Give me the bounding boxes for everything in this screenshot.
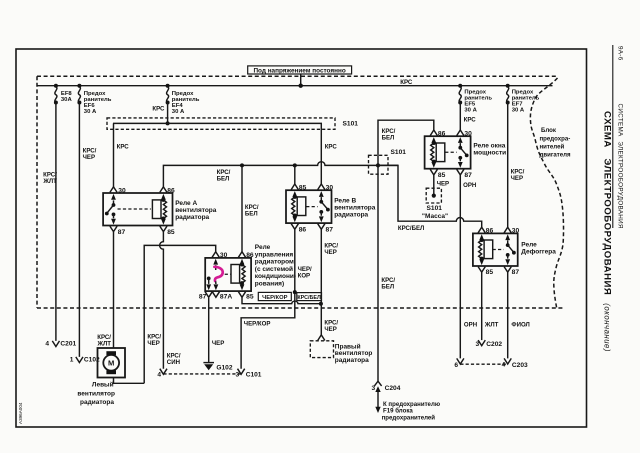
svg-text:ПредохранительEF630 А: ПредохранительEF630 А (84, 91, 112, 115)
control relay pin 86 (238, 252, 254, 265)
wire ЖЛТ: defogger pin 85 to C202 pin 3 (478, 272, 499, 345)
svg-text:КРС: КРС (117, 144, 130, 151)
relay A pin 87 (110, 219, 126, 236)
svg-text:87: 87 (118, 229, 126, 236)
relay A pin 30 (110, 187, 126, 200)
radiator control relay box (Реле управления радиатором) (205, 258, 251, 291)
svg-text:S101: S101 (427, 205, 443, 212)
control relay pin 30 (212, 252, 228, 265)
svg-text:ЧЕР/КОР: ЧЕР/КОР (244, 321, 271, 328)
defogger relay pin 30 (504, 227, 519, 240)
wire КРС/ЧЕР: relay B pin 87 down to right fan (318, 229, 339, 340)
svg-text:Реле окнамощности: Реле окнамощности (473, 143, 506, 157)
connector C201 pin 4 (45, 340, 76, 347)
svg-text:КРС/ЧЕР: КРС/ЧЕР (83, 148, 97, 162)
svg-text:КРС/БЕЛ: КРС/БЕЛ (398, 225, 424, 232)
wire КРС/ЧЕР: radiator control relay pin 30 to left fan negative (144, 245, 216, 383)
svg-text:86: 86 (299, 226, 307, 233)
svg-text:85: 85 (299, 185, 307, 192)
svg-text:ЧЕР/КОР: ЧЕР/КОР (298, 266, 312, 280)
wire КРС: splice to relay B pin 30 (321, 123, 337, 184)
svg-text:КРС: КРС (325, 144, 338, 151)
svg-text:СХЕМАЭЛЕКТРООБОРУДОВАНИЯ(оконч: СХЕМАЭЛЕКТРООБОРУДОВАНИЯ(окончание) (602, 111, 613, 352)
defogger relay box (Реле Дефоггера) (473, 233, 518, 266)
relay A coil (152, 198, 166, 221)
svg-text:КРС: КРС (464, 117, 477, 124)
svg-text:КРС/СИН: КРС/СИН (167, 353, 181, 367)
svg-text:ЧЕР: ЧЕР (212, 340, 224, 347)
svg-text:КРС/ЧЕР: КРС/ЧЕР (324, 242, 338, 256)
junction: rail to control relay 86 (240, 163, 244, 167)
wire КРС/ЖЛТ: fuse EF8 to C201 (52, 103, 59, 347)
svg-text:85: 85 (246, 294, 254, 301)
svg-text:30: 30 (512, 228, 520, 235)
relay A box (Реле А вентилятора радиатора) (103, 193, 172, 226)
svg-text:87: 87 (464, 172, 472, 179)
window relay pin 85 (430, 162, 445, 179)
fuse EF8 30A (54, 84, 73, 105)
wire label box КРС/БЕЛ (297, 293, 322, 301)
connector C101 pin 3 (236, 372, 262, 379)
connector C101 dashed line (157, 372, 241, 379)
svg-text:Блокпредохра-нителейдвигателя: Блокпредохра-нителейдвигателя (540, 127, 572, 159)
svg-text:"Масса": "Масса" (422, 213, 448, 220)
wire КРС/СИН: relay A pin 85 to C101 pin 4 (hops over crossing wire) (160, 232, 181, 374)
svg-text:87: 87 (512, 269, 520, 276)
junction: S101 crossing (376, 163, 380, 167)
relay A switch (105, 200, 151, 218)
svg-text:C202: C202 (486, 341, 502, 348)
wire: motor negative to КРС/ЧЕР riser (114, 378, 145, 384)
relay B pin 85 (291, 184, 306, 197)
wire КРС: fuse EF5 to power window relay pin 30 (460, 103, 476, 131)
svg-text:КРС/ЖЛТ: КРС/ЖЛТ (96, 334, 111, 348)
defogger relay pin 87 (504, 259, 519, 276)
junction: ЧЕР/КОР net on relay B87 wire (319, 302, 323, 306)
svg-text:87: 87 (326, 226, 334, 233)
svg-text:86: 86 (438, 131, 446, 138)
svg-text:86: 86 (167, 187, 175, 194)
svg-text:C101: C101 (246, 372, 262, 379)
relay A pin 85 (160, 219, 175, 236)
window relay switch (445, 143, 468, 161)
ground G102 (203, 363, 232, 372)
connector C203 dashed line (454, 361, 528, 369)
svg-text:КРС/БЕЛ: КРС/БЕЛ (382, 128, 396, 142)
svg-text:C203: C203 (512, 362, 528, 369)
power window relay box (Реле окна мощности) (425, 136, 471, 169)
svg-text:4: 4 (502, 361, 506, 368)
svg-text:86: 86 (246, 252, 254, 259)
svg-text:S101: S101 (343, 121, 359, 128)
svg-text:30: 30 (118, 187, 126, 194)
svg-text:КРС/БЕЛ: КРС/БЕЛ (297, 295, 321, 301)
window relay pin 86 (430, 130, 445, 143)
svg-text:3: 3 (476, 341, 480, 348)
svg-text:85: 85 (486, 269, 494, 276)
connector C202 pin 3 (476, 341, 503, 348)
svg-text:М: М (108, 359, 114, 368)
svg-text:87А: 87А (220, 294, 232, 301)
wire ЧЕР/КОР: control relay pin 85 to junction (hops over relay B86 wire) (242, 298, 321, 304)
svg-text:КРС/БЕЛ: КРС/БЕЛ (217, 169, 231, 183)
svg-text:Под напряжением постоянно: Под напряжением постоянно (253, 68, 345, 75)
connector C102 pin 1 (70, 356, 100, 363)
control relay pin 87 (199, 284, 212, 300)
svg-text:ОРН: ОРН (464, 321, 477, 328)
svg-text:КРС: КРС (152, 105, 165, 112)
svg-text:4: 4 (45, 340, 49, 347)
defogger relay coil (479, 238, 493, 261)
svg-text:4: 4 (157, 372, 161, 379)
svg-text:6: 6 (454, 362, 458, 369)
wire КРС/БЕЛ rail (hops over relay B pin 30 wire) (163, 162, 398, 187)
wire КРС/БЕЛ: rail to control relay pin 86 (242, 165, 259, 251)
svg-text:Реле Авентиляторарадиатора: Реле Авентиляторарадиатора (175, 200, 217, 221)
right fan dashed box (Правый вентилятор радиатора) (310, 341, 372, 364)
control relay coil (231, 263, 245, 286)
wire ЧЕР/КОР: relay B pin 86 down, to C101 pin 3 (238, 229, 313, 374)
connector C204 pin 3 (372, 381, 401, 413)
svg-text:1: 1 (70, 356, 74, 363)
svg-text:ФИОЛ: ФИОЛ (511, 321, 529, 328)
wire ФИОЛ: defogger pin 87 to C203 pin 4 (504, 272, 530, 364)
svg-text:3: 3 (372, 385, 376, 392)
svg-text:ЧЕР: ЧЕР (437, 180, 449, 187)
svg-text:РелеДефоггера: РелеДефоггера (521, 241, 556, 255)
control relay pin 85 (238, 284, 253, 300)
svg-text:Левыйвентиляторрадиатора: Левыйвентиляторрадиатора (77, 380, 115, 406)
svg-text:9А-6СИСТЕМАЭЛЕКТРООБОРУДОВАНИЯ: 9А-6СИСТЕМАЭЛЕКТРООБОРУДОВАНИЯ (616, 46, 623, 229)
wire: КРС power bus (37, 85, 553, 87)
svg-text:КРС/ЖЛТ: КРС/ЖЛТ (42, 172, 57, 186)
relay B box (Реле В вентилятора радиатора) (286, 190, 332, 223)
wire КРС/ЧЕР: fuse EF7 to defogger relay pin 30 (508, 103, 525, 228)
svg-text:G102: G102 (216, 365, 232, 372)
svg-text:КРС/БЕЛ: КРС/БЕЛ (245, 204, 259, 218)
window relay pin 87 (457, 162, 472, 179)
relay B pin 30 (318, 184, 334, 197)
svg-text:85: 85 (167, 229, 175, 236)
defogger relay pin 86 (478, 227, 493, 240)
defogger relay switch (493, 240, 516, 258)
fuse EF4 30A (166, 84, 200, 115)
relay B coil (292, 195, 306, 218)
svg-text:86: 86 (486, 228, 494, 235)
svg-text:Правыйвентиляторрадиатора: Правыйвентиляторрадиатора (335, 342, 373, 364)
wire КРС/ЧЕР: fuse EF6 to C102 (76, 103, 83, 363)
border frame (16, 49, 587, 427)
defogger relay pin 85 (478, 259, 493, 276)
page header rule (right margin) (612, 45, 614, 228)
fuse EF7 30A (506, 84, 540, 114)
svg-text:ЧЕР/КОР: ЧЕР/КОР (262, 295, 287, 301)
svg-text:30: 30 (326, 185, 334, 192)
wire КРС/БЕЛ: S101 up to power window relay pin 86 (378, 120, 434, 165)
svg-text:30: 30 (220, 252, 228, 259)
wire КРС: fuse EF4 down to splice S101 (166, 103, 170, 126)
svg-text:К предохранителюF19 блокапред: К предохранителюF19 блокапредохранителей (382, 401, 440, 422)
svg-text:85: 85 (438, 172, 446, 179)
svg-text:C201: C201 (60, 340, 76, 347)
splice S101 crossing box (369, 149, 407, 174)
svg-text:КРС/БЕЛ: КРС/БЕЛ (381, 277, 395, 291)
window relay pin 30 (457, 130, 472, 143)
svg-text:3: 3 (236, 372, 240, 379)
motor M (левый вентилятор радиатора) (98, 348, 126, 378)
relay B pin 87 (318, 216, 334, 233)
relay A pin 86 (160, 187, 175, 200)
engine fuse block dashed boundary (37, 76, 564, 309)
wire: banner dropper (299, 74, 303, 88)
svg-text:ПредохранительEF530 А: ПредохранительEF530 А (464, 90, 492, 114)
svg-text:ОРН: ОРН (463, 182, 476, 189)
splice S101 bus (dashed) (107, 118, 358, 129)
control relay pin 87A (212, 284, 232, 300)
wire КРС/БЕЛ: S101 down to C204 (378, 165, 395, 381)
label box "Под напряжением постоянно" (248, 66, 352, 75)
svg-text:S101: S101 (391, 149, 407, 156)
svg-text:ПредохранительEF430 А: ПредохранительEF430 А (172, 91, 200, 115)
fuse EF6 30A (77, 84, 111, 115)
svg-text:87: 87 (199, 294, 207, 301)
window relay coil (431, 141, 445, 164)
wire КРС: splice to relay A pin 30 (114, 123, 130, 187)
splice S101 Масса (dashed box) (422, 188, 448, 220)
svg-text:C204: C204 (385, 385, 401, 392)
svg-text:А396А004: А396А004 (18, 402, 23, 424)
svg-text:Реле Ввентиляторарадиатора: Реле Ввентиляторарадиатора (334, 198, 376, 219)
svg-text:30: 30 (464, 131, 472, 138)
wire КРС/ЖЛТ: relay A pin 87 to left fan motor (96, 232, 113, 348)
svg-text:ПредохранительEF730 А: ПредохранительEF730 А (512, 90, 540, 114)
wire label box ЧЕР/КОР (258, 292, 291, 301)
svg-text:КРС: КРС (400, 79, 413, 86)
svg-text:Релеуправлениярадиатором(с сис: Релеуправлениярадиатором(с системойконди… (255, 244, 296, 288)
svg-text:КРС/ЧЕР: КРС/ЧЕР (511, 168, 525, 182)
svg-text:ЖЛТ: ЖЛТ (484, 321, 499, 328)
junction: rail to relay B 85 (293, 163, 297, 167)
relay B pin 86 (291, 216, 306, 233)
wire ОРН: window relay pin 87 down to C203 pin 6 (457, 175, 477, 364)
relay B switch (306, 197, 330, 216)
wire: rail to relay B pin 85 (294, 165, 296, 184)
svg-text:КРС/ЧЕР: КРС/ЧЕР (324, 319, 338, 333)
wire КРС/БЕЛ: S101 to defogger relay pin 86 (hops over ОРН wire) (378, 165, 482, 231)
svg-text:КРС/ЧЕР: КРС/ЧЕР (147, 334, 161, 348)
control relay switch (highlighted) (207, 265, 231, 284)
wire ЧЕР: window relay pin 85 to S101 Масса (434, 175, 449, 194)
wire ЧЕР: control relay pin 87 to ground G102 (209, 298, 225, 363)
fuse EF5 30A (458, 84, 492, 114)
svg-text:EF830А: EF830А (61, 91, 73, 103)
